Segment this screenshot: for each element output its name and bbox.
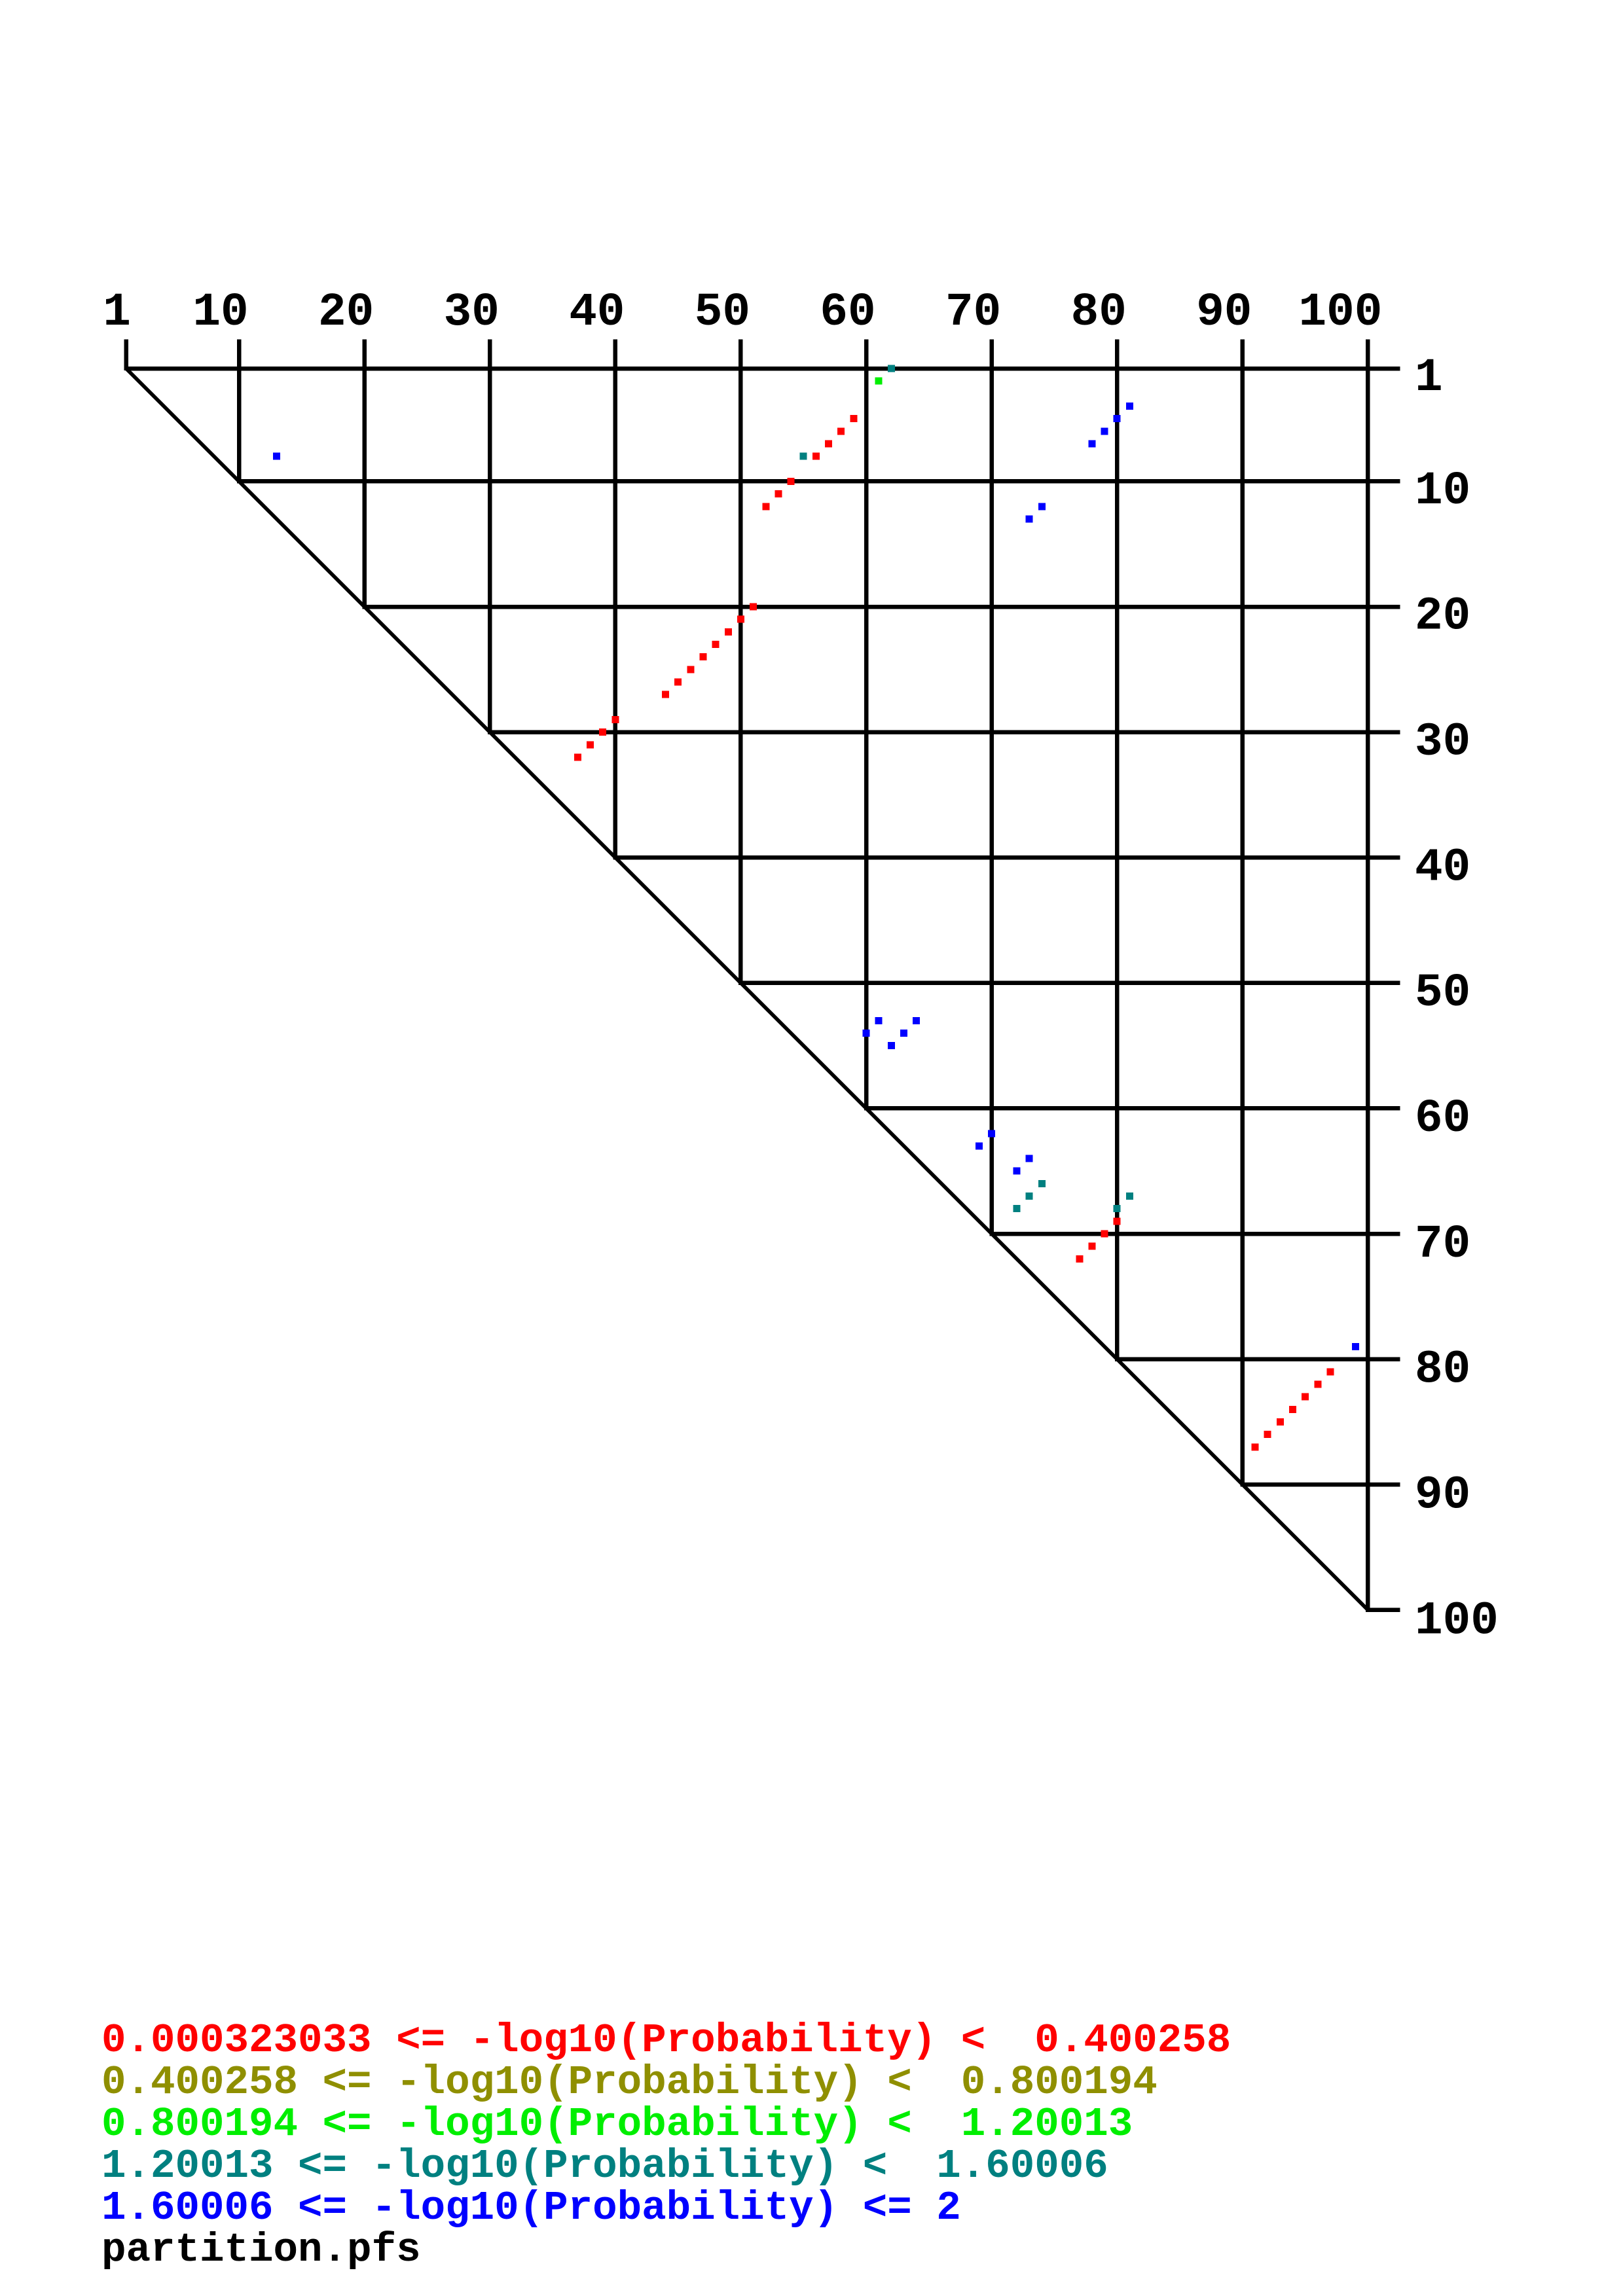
vertical grid line x=100 xyxy=(1366,340,1370,1612)
vertical grid line x=40 xyxy=(613,340,618,860)
svg-text:1.20013 <= -log10(Probability): 1.20013 <= -log10(Probability) < 1.60006 xyxy=(101,2143,1108,2189)
blue dot (61,53) xyxy=(875,1017,883,1024)
teal dot (55,8) xyxy=(800,453,807,460)
top axis tick x=1 xyxy=(124,340,128,371)
red dot (45,26) xyxy=(674,679,682,686)
row line y=90 with right tick xyxy=(1241,1482,1400,1487)
red dot (54,10) xyxy=(788,478,795,485)
teal dot (74,66) xyxy=(1038,1180,1046,1187)
svg-text:100: 100 xyxy=(1415,1595,1499,1647)
svg-text:0.800194 <= -log10(Probability: 0.800194 <= -log10(Probability) < 1.2001… xyxy=(101,2101,1133,2147)
svg-text:80: 80 xyxy=(1415,1344,1470,1397)
svg-text:100: 100 xyxy=(1299,287,1383,339)
row line y=50 with right tick xyxy=(739,981,1400,986)
blue dot (62,55) xyxy=(888,1042,895,1049)
red dot (79,70) xyxy=(1101,1230,1108,1238)
row line y=70 with right tick xyxy=(990,1232,1400,1236)
red dot (48,23) xyxy=(712,641,720,648)
blue dot (74,12) xyxy=(1038,503,1046,510)
svg-text:30: 30 xyxy=(444,287,500,339)
vertical grid line x=50 xyxy=(739,340,743,985)
blue dot (69,63) xyxy=(976,1142,983,1149)
red dot (78,71) xyxy=(1088,1243,1095,1250)
row line y=60 with right tick xyxy=(864,1106,1400,1111)
svg-text:50: 50 xyxy=(695,287,750,339)
row line y=30 with right tick xyxy=(488,730,1400,734)
teal dot (81,67) xyxy=(1126,1193,1133,1200)
blue dot (60,54) xyxy=(863,1030,870,1037)
svg-text:70: 70 xyxy=(945,287,1001,339)
svg-text:90: 90 xyxy=(1415,1470,1470,1522)
row line y=40 with right tick xyxy=(613,855,1400,860)
red dot (97,81) xyxy=(1327,1368,1334,1375)
red dot (56,8) xyxy=(812,453,820,460)
row line y=100 with right tick xyxy=(1366,1608,1400,1613)
svg-text:30: 30 xyxy=(1415,717,1470,769)
red dot (96,82) xyxy=(1314,1381,1321,1388)
blue dot (73,64) xyxy=(1026,1155,1033,1162)
red dot (59,5) xyxy=(850,415,857,422)
row line y=1 with right tick xyxy=(126,367,1400,371)
red dot (91,87) xyxy=(1252,1443,1259,1450)
vertical grid line x=20 xyxy=(362,340,367,609)
blue dot (79,6) xyxy=(1101,427,1108,435)
svg-text:70: 70 xyxy=(1415,1219,1470,1271)
svg-text:1: 1 xyxy=(1415,352,1443,404)
teal dot (80,68) xyxy=(1114,1205,1121,1212)
red dot (46,25) xyxy=(687,666,694,673)
vertical grid line x=10 xyxy=(237,340,242,484)
blue dot (72,65) xyxy=(1013,1168,1021,1175)
svg-text:90: 90 xyxy=(1196,287,1252,339)
red dot (94,84) xyxy=(1289,1406,1296,1413)
red dot (58,6) xyxy=(837,427,845,435)
red dot (47,24) xyxy=(700,653,707,660)
red dot (51,20) xyxy=(750,603,757,611)
vertical grid line x=70 xyxy=(989,340,994,1236)
row line y=10 with right tick xyxy=(237,479,1400,484)
red dot (37,32) xyxy=(574,754,581,761)
blue dot (78,7) xyxy=(1088,440,1095,448)
svg-text:partition.pfs: partition.pfs xyxy=(101,2227,421,2273)
svg-text:60: 60 xyxy=(1415,1093,1470,1145)
red dot (93,85) xyxy=(1277,1418,1284,1426)
svg-text:40: 40 xyxy=(1415,842,1470,894)
red dot (44,27) xyxy=(662,691,669,698)
row line y=80 with right tick xyxy=(1115,1357,1400,1361)
blue dot (80,5) xyxy=(1114,415,1121,422)
svg-text:0.000323033 <= -log10(Probabil: 0.000323033 <= -log10(Probability) < 0.4… xyxy=(101,2017,1231,2064)
svg-text:40: 40 xyxy=(569,287,625,339)
vertical grid line x=80 xyxy=(1115,340,1120,1361)
svg-text:60: 60 xyxy=(820,287,875,339)
svg-text:50: 50 xyxy=(1415,967,1470,1020)
svg-text:1.60006 <= -log10(Probability): 1.60006 <= -log10(Probability) <= 2 xyxy=(101,2185,961,2231)
red dot (52,12) xyxy=(762,503,769,510)
blue dot (73,13) xyxy=(1026,515,1033,522)
svg-text:10: 10 xyxy=(192,287,248,339)
svg-text:1: 1 xyxy=(103,287,131,339)
blue dot (13,8) xyxy=(273,453,280,460)
blue dot (81,4) xyxy=(1126,403,1133,410)
red dot (57,7) xyxy=(825,440,832,448)
teal dot (72,68) xyxy=(1013,1205,1021,1212)
red dot (95,83) xyxy=(1302,1393,1309,1401)
red dot (38,31) xyxy=(587,741,594,748)
red dot (40,29) xyxy=(611,716,619,723)
red dot (50,21) xyxy=(737,616,744,623)
svg-text:0.400258 <= -log10(Probability: 0.400258 <= -log10(Probability) < 0.8001… xyxy=(101,2059,1158,2106)
red dot (80,69) xyxy=(1114,1217,1121,1225)
blue dot (70,62) xyxy=(988,1130,995,1137)
green dot (61,2) xyxy=(875,378,883,385)
row line y=20 with right tick xyxy=(363,605,1400,609)
blue dot (63,54) xyxy=(900,1030,907,1037)
blue dot (64,53) xyxy=(913,1017,920,1024)
svg-text:20: 20 xyxy=(1415,591,1470,643)
svg-text:10: 10 xyxy=(1415,465,1470,518)
diagonal boundary xyxy=(126,368,1368,1610)
vertical grid line x=30 xyxy=(488,340,492,734)
red dot (77,72) xyxy=(1076,1255,1083,1263)
red dot (53,11) xyxy=(775,490,782,497)
teal dot (62,1) xyxy=(888,365,895,372)
teal dot (73,67) xyxy=(1026,1193,1033,1200)
svg-text:20: 20 xyxy=(318,287,374,339)
svg-text:80: 80 xyxy=(1071,287,1127,339)
red dot (92,86) xyxy=(1264,1431,1271,1438)
red dot (39,30) xyxy=(599,728,606,736)
vertical grid line x=60 xyxy=(864,340,869,1111)
vertical grid line x=90 xyxy=(1241,340,1245,1487)
blue dot (99,79) xyxy=(1352,1343,1359,1350)
red dot (49,22) xyxy=(725,628,732,636)
